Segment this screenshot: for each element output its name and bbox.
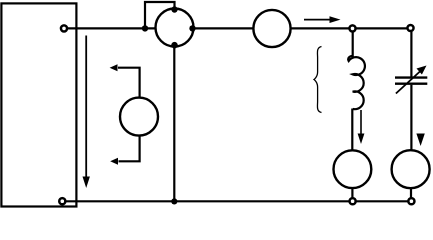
arrow: voltmeter bottom tap (points left) xyxy=(110,158,118,165)
wire: voltmeter bottom lead xyxy=(119,136,140,162)
terminal T1 (top tap of box) xyxy=(61,25,67,31)
wire: between bottom terminals xyxy=(356,200,407,202)
wire: capacitor to ammeter A2 xyxy=(410,85,412,150)
wire: A2 to bottom terminal xyxy=(410,188,412,197)
ammeter A2 (circle) xyxy=(392,150,430,188)
arrow: wiper direction (long down arrow beside box) xyxy=(83,36,90,189)
ammeter A1 (circle) xyxy=(334,150,372,188)
wire: motor right terminal to generator xyxy=(193,27,254,29)
wire: generator to output terminal xyxy=(291,27,350,29)
terminal T5 (below A1) xyxy=(350,198,356,204)
capacitor C top plate xyxy=(395,76,427,78)
node: motor top brush dot xyxy=(171,6,177,12)
arrow: inductor current direction xyxy=(358,110,365,144)
node: motor left brush dot xyxy=(142,25,148,31)
arrow: capacitor current direction (head only) xyxy=(416,134,424,147)
arrow: current direction on output wire xyxy=(304,16,341,23)
node: motor right brush dot xyxy=(189,25,195,31)
wire: motor bottom terminal down to return wire xyxy=(173,46,175,202)
wire: between load terminals xyxy=(356,27,407,29)
node: motor bottom brush dot xyxy=(171,42,178,49)
wire: T1 to motor left terminal xyxy=(67,27,156,29)
terminal T4 (load terminal right) xyxy=(407,25,413,31)
voltmeter V (circle) xyxy=(120,98,158,136)
wire: bottom return wire xyxy=(66,200,349,202)
wire: shunt field loop over motor xyxy=(145,2,175,28)
arrow: variable capacitor diagonal xyxy=(396,66,427,94)
terminal T2 (bottom tap of box) xyxy=(59,198,65,204)
inductor L (variable load coil) xyxy=(348,56,365,109)
wire: voltmeter top lead xyxy=(118,68,140,98)
rheostat box (potential divider) xyxy=(1,3,76,206)
wire: T4 down to capacitor xyxy=(410,32,412,77)
generator G (plain circle) xyxy=(253,10,290,47)
wire: A1 to bottom terminal xyxy=(351,188,353,197)
wire: T3 down to inductor xyxy=(352,32,354,57)
capacitor C bottom plate xyxy=(395,82,427,84)
junction dot on return wire xyxy=(171,198,177,204)
dc shunt motor M (armature circle) xyxy=(156,9,194,47)
brace marking inductor section xyxy=(314,47,322,113)
arrow: voltmeter top tap (points left) xyxy=(110,64,118,71)
terminal T3 (load terminal left) xyxy=(349,25,355,31)
terminal T6 (below A2) xyxy=(408,198,414,204)
wire: inductor to ammeter A1 xyxy=(351,109,353,151)
